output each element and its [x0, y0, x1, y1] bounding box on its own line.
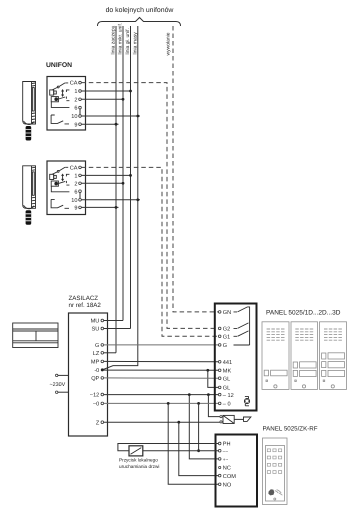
- panel internal call switches: [234, 307, 250, 345]
- wire: U2 terminal 2 to bus2: [81, 182, 124, 185]
- svg-text:wywołanie: wywołanie: [166, 32, 172, 55]
- brace under label: [98, 18, 181, 27]
- svg-text:Przycisk lokalnego: Przycisk lokalnego: [119, 458, 158, 463]
- wire: U1 jumper 6-10: [79, 109, 81, 115]
- unifon U1 internal symbols: [50, 83, 70, 124]
- svg-text:~0: ~0: [93, 402, 99, 408]
- net: linia zaczepu (bus 1): [115, 26, 117, 353]
- label: ZASILACZ nr ref. 18A2: [69, 295, 102, 309]
- svg-text:6: 6: [74, 106, 77, 112]
- svg-text:SU: SU: [92, 327, 100, 333]
- ZASILACZ terminals: [101, 319, 104, 423]
- svg-text:– 12: – 12: [223, 393, 234, 399]
- label: linia zaczepu: [111, 25, 117, 54]
- svg-text:Z: Z: [96, 421, 100, 427]
- svg-text:CA: CA: [70, 81, 78, 87]
- svg-text:ZASILACZ: ZASILACZ: [69, 295, 99, 302]
- svg-text:6: 6: [74, 189, 77, 195]
- unifon U1 box: [47, 77, 86, 131]
- wire: U1 CA dashed to G2: [81, 83, 218, 329]
- unifon U2 terminal labels: [70, 166, 78, 212]
- electric lock symbol: [220, 415, 244, 423]
- door panel image 2D: [291, 322, 318, 390]
- svg-text:COM: COM: [223, 474, 236, 480]
- svg-text:MU: MU: [91, 319, 100, 325]
- svg-text:NO: NO: [223, 483, 232, 489]
- wire: U2 terminal 1 to bus3: [81, 174, 132, 177]
- svg-text:G2: G2: [223, 327, 230, 333]
- svg-text:-0: -0: [94, 368, 99, 374]
- unifon U1 terminals: [79, 81, 82, 125]
- wire: U2 jumper 6-10: [79, 193, 81, 199]
- wire: QP to panel GL: [104, 377, 219, 379]
- wire: button to -~: [143, 450, 219, 452]
- label: linia masy: [132, 32, 138, 55]
- wire: U2 CA dashed to G1: [81, 167, 218, 336]
- net: linia gl. unif. (bus 3): [130, 26, 132, 329]
- panel terminals: [218, 311, 221, 405]
- svg-text:– 0: – 0: [223, 402, 231, 408]
- svg-text:CA: CA: [70, 166, 78, 172]
- wire: ~12 to panel -12, branches: [104, 393, 220, 459]
- svg-text:1: 1: [74, 89, 77, 95]
- keypad panel image: [263, 438, 288, 505]
- wire: MU to bus2: [104, 320, 123, 322]
- svg-text:QP: QP: [91, 376, 99, 382]
- keypad terminal labels: [223, 442, 236, 489]
- label: PANEL 5025/ZK-RF: [263, 426, 318, 433]
- svg-text:LZ: LZ: [93, 351, 100, 357]
- handset icon 1: [23, 82, 36, 141]
- svg-text:9: 9: [74, 122, 77, 128]
- svg-text:2: 2: [74, 181, 77, 187]
- svg-text:do kolejnych unifonów: do kolejnych unifonów: [106, 6, 174, 14]
- wire: U2 terminal 10 to bus4: [81, 198, 140, 201]
- svg-text:G: G: [223, 343, 227, 349]
- svg-text:UNIFON: UNIFON: [46, 62, 72, 69]
- wire: Z to lock and COM branch: [104, 421, 220, 476]
- svg-text:2: 2: [74, 97, 77, 103]
- mains 230V stubs: [49, 374, 68, 393]
- svg-text:linia gł. unif.: linia gł. unif.: [125, 28, 131, 54]
- svg-text:1: 1: [74, 174, 77, 180]
- wire: LZ to bus1: [104, 352, 116, 354]
- svg-text:uruchamiania drzwi: uruchamiania drzwi: [119, 464, 159, 469]
- panel microphone symbol: [244, 396, 249, 405]
- svg-text:linia masy: linia masy: [132, 32, 138, 55]
- door release button: [129, 446, 143, 456]
- wire: wywolanie dashed line to GN: [173, 26, 218, 312]
- svg-text:PH: PH: [223, 442, 231, 448]
- svg-text:G: G: [95, 343, 99, 349]
- wire: ~0 to panel -0, branches: [104, 402, 219, 484]
- ZASILACZ terminal labels: [90, 319, 100, 427]
- svg-text:PANEL 5025/1D...2D...3D: PANEL 5025/1D...2D...3D: [266, 310, 341, 317]
- wire: U1 terminal 2 to bus2: [81, 98, 124, 101]
- label: do kolejnych unifonow: [106, 6, 174, 14]
- svg-text:+~: +~: [223, 457, 229, 462]
- svg-text:MP: MP: [91, 360, 100, 366]
- door panel image 1D: [262, 322, 289, 390]
- wire: button to PH: [118, 444, 218, 451]
- svg-text:441: 441: [223, 360, 232, 366]
- wire: SU to bus3: [104, 328, 131, 330]
- svg-text:10: 10: [71, 114, 77, 120]
- label: Przycisk lokalnego uruchamiania drzwi: [119, 458, 159, 470]
- label: PANEL 5025/1D...2D...3D: [266, 310, 341, 317]
- handset icon 2: [23, 166, 36, 225]
- svg-text:nr ref. 18A2: nr ref. 18A2: [69, 302, 102, 309]
- svg-text:–~: –~: [223, 449, 229, 454]
- label: wywolanie: [166, 32, 172, 55]
- unifon U1 terminal labels: [70, 81, 78, 129]
- panel terminal labels: [223, 310, 234, 408]
- label: linia mikr. unif.: [118, 23, 124, 55]
- net: linia masy (bus 4): [102, 26, 138, 370]
- lock striker flag symbol: [244, 417, 251, 421]
- wall bracket symbol: [13, 323, 58, 348]
- svg-text:GL: GL: [223, 376, 230, 382]
- svg-text:G1: G1: [223, 335, 230, 341]
- svg-text:GL: GL: [223, 386, 230, 392]
- keypad terminals: [218, 442, 221, 485]
- svg-text:linia zaczepu: linia zaczepu: [111, 25, 117, 54]
- svg-text:~12: ~12: [90, 393, 100, 399]
- unifon U2 terminals: [79, 166, 82, 209]
- wire: MP to panel 441: [104, 360, 219, 362]
- net: linia mikr. unif. (bus 2): [122, 26, 124, 321]
- unifon U2 box: [47, 161, 86, 215]
- svg-text:linia mikr. unif.: linia mikr. unif.: [118, 23, 124, 55]
- svg-text:10: 10: [71, 198, 77, 204]
- label: linia gl. unif.: [125, 28, 131, 54]
- unifon U2 internal symbols: [50, 167, 70, 208]
- wire: -0 to panel MK with branch to GL: [104, 369, 219, 388]
- keypad module box: [216, 435, 258, 507]
- wire: G to panel G: [104, 344, 219, 346]
- wire: U1 terminal 9 to bus1: [81, 123, 118, 126]
- entry panel terminal box: [215, 304, 257, 411]
- svg-text:PANEL 5025/ZK-RF: PANEL 5025/ZK-RF: [263, 426, 318, 433]
- power supply ZASILACZ box: [69, 313, 108, 436]
- label: UNIFON: [46, 62, 72, 69]
- svg-text:NC: NC: [223, 466, 231, 472]
- wire: U1 terminal 1 to bus3: [81, 90, 132, 93]
- svg-text:GN: GN: [223, 310, 231, 316]
- svg-text:MK: MK: [223, 369, 232, 375]
- svg-text:9: 9: [74, 206, 77, 212]
- wire: U2 terminal 9 to bus1: [81, 206, 118, 209]
- door panel image 3D: [320, 322, 347, 390]
- wire: U1 terminal 10 to bus4: [81, 115, 140, 118]
- svg-text:~230V: ~230V: [49, 382, 65, 388]
